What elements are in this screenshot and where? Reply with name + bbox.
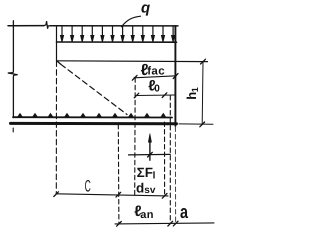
wire flange bottom line + h1 top extension (57, 60, 208, 63)
svg-text:an: an (140, 209, 154, 221)
node v3 crack point reference (dashed) (134, 78, 137, 196)
label h1 (rotated) (184, 87, 200, 100)
reaction baseline (129, 153, 171, 156)
wire left edge lower part (12, 77, 14, 118)
svg-text:l: l (153, 171, 156, 182)
node left edge tick above line (12, 21, 14, 26)
svg-text:1: 1 (190, 87, 200, 92)
wire beam end face (174, 26, 176, 126)
svg-text:ΣF: ΣF (137, 165, 153, 180)
bottom reinforcement band bottom line (thick) (11, 122, 177, 125)
rib triangles on bar (17, 113, 166, 117)
node v6 beam face extension (dashed) (174, 127, 176, 223)
reaction arrow SigmaF (149, 141, 151, 161)
node support axis v1 upper solid (56, 26, 58, 61)
dimension line C / d_sv (56, 194, 168, 196)
svg-text:a: a (180, 201, 189, 222)
distributed load arrows q (61, 27, 175, 42)
node support axis v1 dashed (55, 61, 57, 194)
inclined crack (dashed diagonal) (58, 62, 61, 65)
node v4 dsv right reference (dashed) (164, 122, 166, 196)
dimension line l_an and a (bottom) (115, 223, 214, 224)
wire stray dash below band (12, 128, 14, 132)
svg-text:0: 0 (154, 83, 160, 94)
svg-text:q: q (141, 0, 150, 17)
wire load reference line (top, with break) (8, 25, 44, 27)
break symbol on top line (44, 21, 50, 29)
dimension h1 vertical line (201, 62, 204, 125)
wire left column edge (vertical, with break) (12, 26, 14, 71)
svg-text:sv: sv (144, 185, 156, 196)
h1 bottom extension line (179, 123, 213, 125)
break symbol on left edge (8, 71, 18, 77)
wire load line continues to beam end (50, 25, 178, 27)
node v5 bar end reference (dashed) (169, 96, 171, 224)
svg-text:d: d (136, 181, 144, 196)
dimension line l_fac (134, 76, 176, 78)
svg-text:fac: fac (147, 66, 165, 78)
node v2 lan left reference (dashed) (117, 125, 120, 224)
svg-text:C: C (85, 177, 91, 195)
bottom reinforcement band top line (13, 116, 172, 118)
q label leader (122, 16, 141, 27)
wire beam top line (57, 41, 177, 43)
dimension line l_0 (136, 94, 175, 97)
